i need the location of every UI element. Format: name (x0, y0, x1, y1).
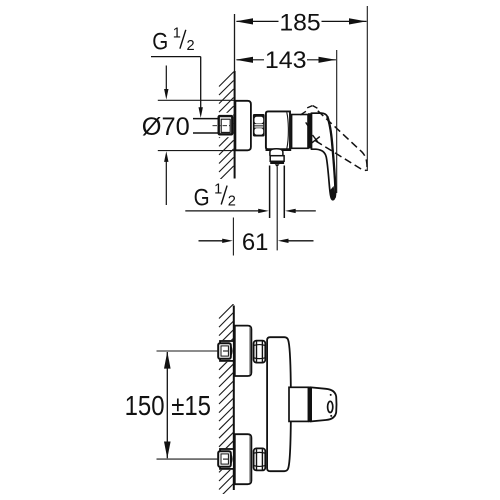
svg-text:61: 61 (242, 230, 269, 256)
hose centerline (276, 167, 278, 250)
lower inlet stub (220, 449, 234, 469)
upper escutcheon (plan) (235, 326, 252, 376)
dashed lever lower edge (316, 141, 367, 171)
mixer body (side view) (266, 111, 290, 149)
cartridge neck (plan) (289, 387, 308, 421)
dimension 61 (232, 218, 234, 256)
white halo behind supply nut (216, 113, 234, 137)
dashed lever upper edge (318, 111, 367, 169)
svg-text:G: G (152, 29, 168, 56)
seal band (plan) (308, 387, 311, 423)
handle cap (plan, end-on) (311, 387, 336, 421)
dashed cap outline (300, 106, 319, 144)
body cylinder arc (287, 112, 289, 148)
lever outer edge (thicker stroke) (327, 116, 335, 197)
threaded hex nipple (253, 114, 265, 137)
seal ring (thick band) (308, 113, 312, 148)
escutcheon flange (side view) (235, 101, 251, 151)
svg-text:2: 2 (228, 194, 236, 210)
lever tip dark fill (330, 186, 335, 200)
lower hex connection nut (254, 448, 266, 470)
dimension 185 (366, 6, 368, 171)
shower hose outer lines (269, 166, 271, 219)
svg-text:143: 143 (265, 48, 307, 74)
wall hatching (side view) (219, 72, 234, 181)
dimension 143 (336, 50, 338, 193)
supply union nut (side view) (219, 116, 233, 134)
screw dots (330, 394, 332, 396)
handle cap + lever (solid, down position) (312, 113, 336, 200)
centering triangle under outlet (275, 164, 280, 167)
svg-text:G: G (194, 184, 210, 211)
upper union nut (plan) (218, 343, 231, 359)
cartridge collar (292, 115, 308, 149)
wall face line (plan view) (233, 306, 235, 491)
svg-text:2: 2 (187, 38, 195, 54)
wall hatching (plan view) (219, 304, 234, 498)
upper inlet stub (220, 341, 234, 361)
lever slot oval on cap end (328, 401, 333, 412)
svg-text:185: 185 (279, 11, 320, 37)
pipe centerline (213, 125, 233, 127)
dimension diameter 70 (158, 99, 234, 101)
supply pipe behind wall (193, 118, 234, 120)
mixer body (plan view) (267, 337, 291, 471)
upper hex connection nut (254, 341, 266, 363)
svg-text:1: 1 (173, 26, 181, 42)
svg-text:Ø70: Ø70 (142, 114, 190, 141)
dimension 150 +/-15 (157, 350, 220, 352)
wall face line (side view) (234, 14, 236, 72)
outlet nipple dome (270, 149, 283, 156)
lower escutcheon (plan) (235, 434, 252, 484)
white halos behind inlet fittings (217, 340, 234, 362)
outlet block (270, 156, 284, 162)
svg-text:1: 1 (214, 182, 222, 198)
outlet seal dark band (270, 161, 284, 164)
svg-text:150 ±15: 150 ±15 (125, 390, 211, 421)
lower union nut (plan) (218, 451, 231, 467)
body bottom thick line (266, 148, 292, 151)
